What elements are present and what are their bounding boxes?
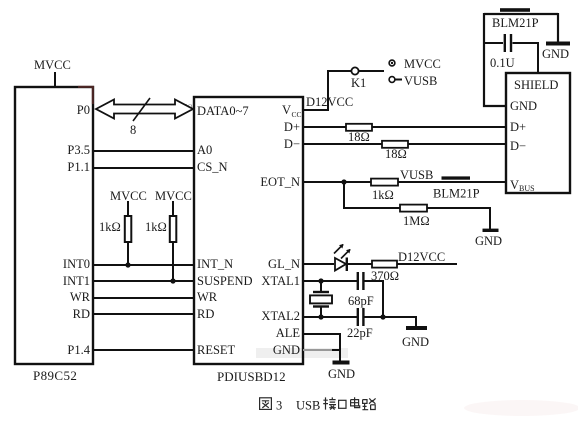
svg-text:DATA0~7: DATA0~7 — [197, 104, 249, 118]
wire XTAL2 net — [303, 317, 416, 327]
IC U2 P89C52 body — [15, 87, 94, 364]
svg-text:V: V — [282, 103, 291, 117]
watermark decorations (unlabeled) — [114, 103, 578, 416]
J1 pin label VBUS — [510, 178, 535, 193]
svg-text:XTAL2: XTAL2 — [261, 309, 300, 323]
junction dot INT0 line — [125, 262, 130, 267]
svg-text:PDIUSBD12: PDIUSBD12 — [217, 369, 286, 384]
wire INT1 to SUSPEND — [93, 280, 194, 282]
svg-text:RD: RD — [73, 307, 90, 321]
svg-text:GND: GND — [475, 234, 502, 248]
svg-text:CS_N: CS_N — [197, 160, 228, 174]
wire Vcc to D12VCC riser — [303, 71, 351, 110]
U1 pin label Vcc — [282, 103, 302, 119]
svg-text:K1: K1 — [351, 76, 366, 90]
svg-text:GND: GND — [402, 335, 429, 349]
resistor R4 1kOhm pullup SUSPEND — [145, 201, 176, 281]
glyph tu — [260, 398, 272, 410]
svg-text:RD: RD — [197, 307, 214, 321]
ground (U1 GND) — [328, 363, 355, 382]
svg-text:USB: USB — [296, 399, 320, 413]
svg-text:SUSPEND: SUSPEND — [197, 274, 253, 288]
svg-text:1kΩ: 1kΩ — [145, 220, 167, 234]
resistor R2 18Ohm (D-) — [382, 141, 408, 161]
wire P1.4 to RESET — [93, 349, 194, 351]
svg-text:BUS: BUS — [519, 184, 535, 193]
svg-text:D+: D+ — [284, 120, 300, 134]
wire WR to WR — [93, 297, 194, 299]
IC U1 PDIUSBD12 body — [194, 97, 303, 364]
junction dot EOT_N branch — [341, 179, 346, 184]
glyph jie — [323, 397, 336, 409]
svg-text:RESET: RESET — [197, 343, 236, 357]
svg-text:VUSB: VUSB — [404, 74, 437, 88]
svg-text:A0: A0 — [197, 143, 212, 157]
resistor R5 1kOhm (VUSB) — [371, 179, 398, 202]
svg-text:D+: D+ — [510, 120, 526, 134]
LED D1 — [334, 245, 350, 272]
svg-text:BLM21P: BLM21P — [433, 187, 480, 201]
wire EOT_N / VUSB net — [303, 181, 506, 183]
svg-text:EOT_N: EOT_N — [260, 175, 300, 189]
svg-text:MVCC: MVCC — [404, 57, 441, 71]
svg-text:D−: D− — [284, 137, 300, 151]
svg-text:18Ω: 18Ω — [385, 147, 407, 161]
wire GND pin stub — [303, 350, 340, 361]
power label MVCC (pullup R4) — [155, 189, 192, 203]
svg-text:22pF: 22pF — [347, 326, 373, 340]
ground (crystal) — [402, 328, 429, 349]
svg-text:P1.1: P1.1 — [67, 160, 90, 174]
svg-text:GND: GND — [542, 47, 569, 61]
capacitor C1 68pF — [348, 272, 383, 317]
svg-text:GL_N: GL_N — [268, 257, 300, 271]
wire ALE stub — [303, 334, 340, 350]
wire shield ground left drop — [484, 13, 506, 106]
power label MVCC (pullup R3) — [110, 189, 147, 203]
wire D- net — [303, 143, 506, 145]
svg-text:0.1U: 0.1U — [490, 56, 515, 70]
svg-text:GND: GND — [273, 343, 300, 357]
junction dot XTAL2/C1 riser — [380, 314, 385, 319]
svg-text:P3.5: P3.5 — [67, 143, 90, 157]
svg-text:GND: GND — [510, 99, 537, 113]
junction dot XTAL2/crystal — [318, 314, 323, 319]
junction dot SUSPEND line — [170, 278, 175, 283]
junction dot XTAL1/crystal — [318, 278, 323, 283]
wire RD to RD — [93, 313, 194, 315]
ground (1M) — [475, 230, 502, 248]
svg-text:INT_N: INT_N — [197, 257, 233, 271]
svg-text:1kΩ: 1kΩ — [372, 188, 394, 202]
svg-text:MVCC: MVCC — [155, 189, 192, 203]
svg-text:ALE: ALE — [276, 326, 301, 340]
resistor R7 370Ohm — [371, 261, 399, 283]
svg-text:18Ω: 18Ω — [348, 130, 370, 144]
svg-text:V: V — [510, 178, 519, 192]
svg-text:CC: CC — [292, 110, 302, 119]
svg-text:INT0: INT0 — [63, 257, 90, 271]
svg-text:8: 8 — [130, 123, 136, 137]
svg-text:D12VCC: D12VCC — [306, 95, 353, 109]
caption: figure 3 USB interface circuit — [260, 397, 376, 410]
svg-text:MVCC: MVCC — [110, 189, 147, 203]
wire GL_N net — [303, 263, 457, 265]
resistor R6 1MOhm branch wire — [344, 182, 490, 229]
ground (top right) — [542, 13, 570, 61]
resistor R1 18Ohm (D+) — [346, 124, 372, 144]
IC U2 label P89C52 — [33, 368, 77, 383]
connector J1 SHIELD body — [506, 73, 570, 193]
svg-text:P89C52: P89C52 — [33, 368, 77, 383]
terminal MVCC — [389, 57, 441, 71]
glyph kou — [339, 400, 346, 408]
svg-text:68pF: 68pF — [348, 294, 374, 308]
svg-text:3: 3 — [276, 399, 282, 413]
svg-text:P0: P0 — [77, 103, 90, 117]
svg-text:GND: GND — [328, 367, 355, 381]
svg-text:MVCC: MVCC — [34, 58, 71, 72]
ferrite bead L2 BLM21P (VBUS) — [433, 176, 480, 200]
svg-text:INT1: INT1 — [63, 274, 90, 288]
svg-text:D12VCC: D12VCC — [398, 250, 445, 264]
bus width slash — [133, 98, 150, 121]
svg-text:BLM21P: BLM21P — [492, 16, 539, 30]
svg-text:VUSB: VUSB — [400, 168, 433, 182]
IC U1 label PDIUSBD12 — [217, 369, 286, 384]
glyph lu — [362, 398, 375, 409]
terminal VUSB — [389, 74, 437, 88]
svg-text:WR: WR — [197, 290, 218, 304]
resistor R6 1MOhm — [400, 205, 430, 228]
svg-text:1kΩ: 1kΩ — [99, 220, 121, 234]
resistor R3 1kOhm pullup INT — [99, 201, 131, 265]
power label MVCC (top left) — [34, 58, 71, 87]
wire D+ net — [303, 126, 506, 128]
capacitor C3 0.1U — [484, 34, 538, 73]
switch K1 — [351, 67, 384, 90]
caption text 3 USB — [276, 399, 320, 413]
wire XTAL1 net — [303, 280, 357, 282]
svg-text:WR: WR — [70, 290, 91, 304]
capacitor C2 22pF — [347, 308, 373, 340]
svg-text:P1.4: P1.4 — [67, 343, 90, 357]
ferrite bead L1 BLM21P (top) — [484, 8, 558, 30]
glyph dian — [351, 397, 360, 407]
wire P3.5 to A0 — [93, 150, 194, 152]
svg-text:D−: D− — [510, 139, 526, 153]
crystal Y1 — [310, 281, 332, 317]
svg-text:SHIELD: SHIELD — [514, 78, 558, 92]
wire P1.1 to CS_N — [93, 167, 194, 169]
wire INT0 to INT_N — [93, 264, 194, 266]
svg-text:XTAL1: XTAL1 — [261, 274, 300, 288]
svg-text:1MΩ: 1MΩ — [403, 214, 430, 228]
data bus arrow P0 to DATA0~7 — [96, 100, 193, 119]
